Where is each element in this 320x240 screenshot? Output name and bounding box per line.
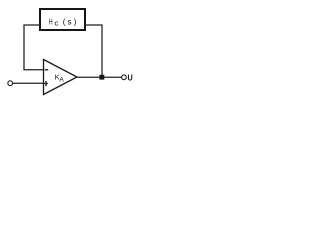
svg-text:U: U — [128, 73, 133, 82]
svg-text:H c (s): H c (s) — [49, 17, 79, 27]
